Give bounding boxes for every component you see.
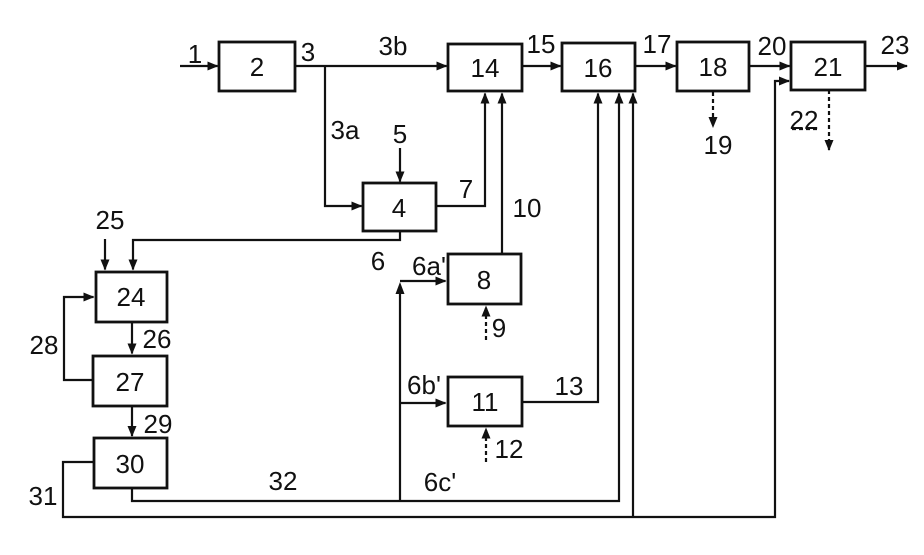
svg-text:27: 27 xyxy=(116,367,145,397)
svg-text:6a': 6a' xyxy=(412,251,446,281)
svg-text:25: 25 xyxy=(96,205,125,235)
svg-text:3b: 3b xyxy=(379,31,408,61)
svg-text:21: 21 xyxy=(814,52,843,82)
svg-text:32: 32 xyxy=(269,466,298,496)
svg-text:6: 6 xyxy=(371,246,385,276)
svg-text:3: 3 xyxy=(301,37,315,67)
svg-text:6c': 6c' xyxy=(424,467,456,497)
svg-text:19: 19 xyxy=(704,130,733,160)
svg-text:14: 14 xyxy=(471,53,500,83)
svg-text:29: 29 xyxy=(144,409,173,439)
svg-text:18: 18 xyxy=(699,52,728,82)
svg-text:8: 8 xyxy=(477,265,491,295)
svg-text:2: 2 xyxy=(250,52,264,82)
svg-text:11: 11 xyxy=(472,387,499,417)
svg-text:6b': 6b' xyxy=(407,370,441,400)
svg-text:5: 5 xyxy=(393,119,407,149)
svg-text:28: 28 xyxy=(30,330,59,360)
svg-text:12: 12 xyxy=(495,434,524,464)
svg-text:30: 30 xyxy=(116,449,145,479)
svg-text:17: 17 xyxy=(643,29,672,59)
svg-text:3a: 3a xyxy=(331,115,360,145)
svg-text:31: 31 xyxy=(29,481,58,511)
svg-text:24: 24 xyxy=(117,282,146,312)
svg-text:16: 16 xyxy=(584,53,613,83)
svg-text:20: 20 xyxy=(758,31,787,61)
svg-text:10: 10 xyxy=(513,193,542,223)
svg-text:22: 22 xyxy=(790,105,819,135)
svg-text:23: 23 xyxy=(881,30,910,60)
svg-text:15: 15 xyxy=(527,29,556,59)
svg-text:7: 7 xyxy=(459,174,473,204)
svg-text:1: 1 xyxy=(188,39,202,69)
svg-text:9: 9 xyxy=(492,313,506,343)
svg-text:13: 13 xyxy=(555,371,584,401)
svg-text:4: 4 xyxy=(392,193,406,223)
svg-text:26: 26 xyxy=(143,324,172,354)
